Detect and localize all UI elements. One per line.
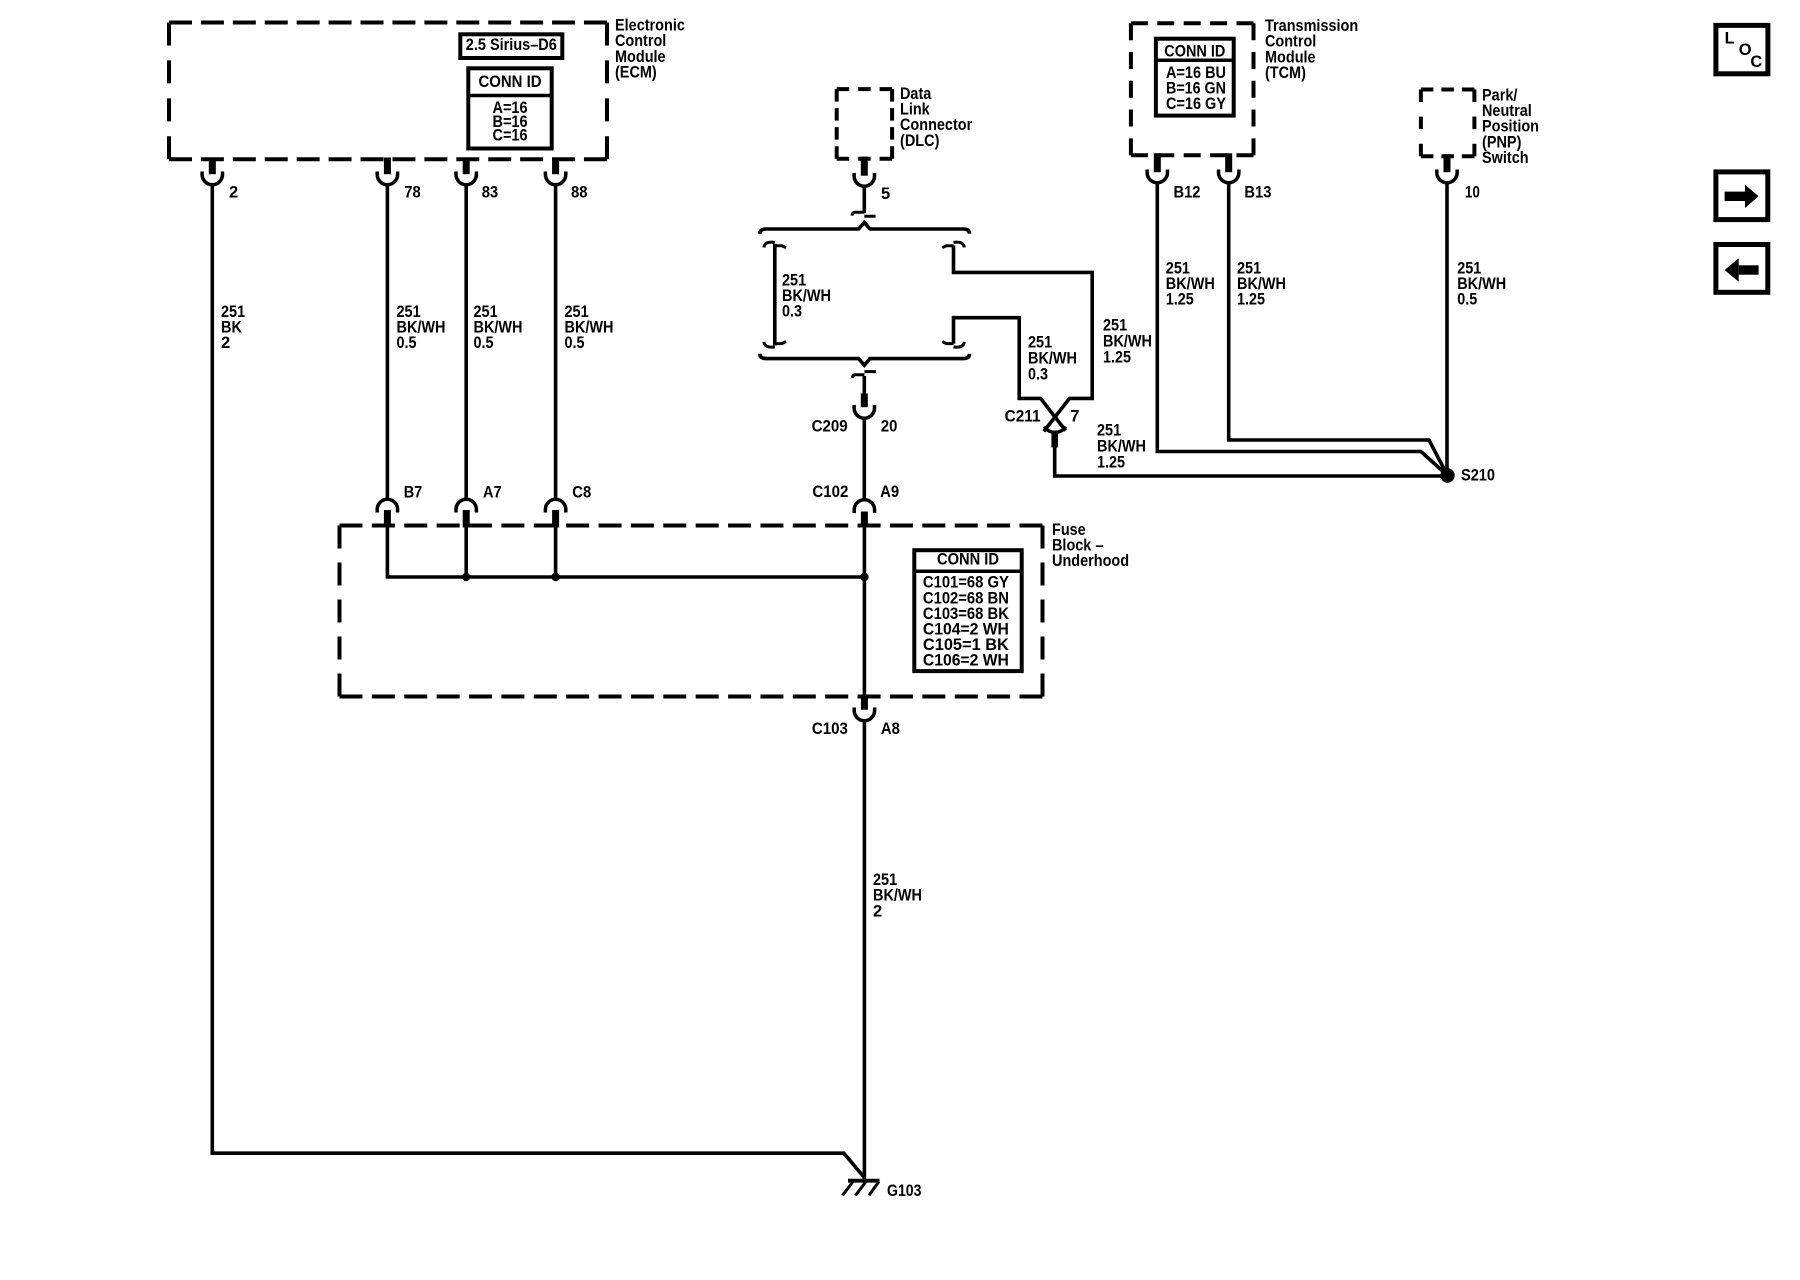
svg-text:0.5: 0.5: [565, 334, 585, 352]
LOC reference box: [1716, 25, 1768, 73]
TCM CONN ID table: [1156, 39, 1234, 116]
svg-text:88: 88: [571, 183, 588, 201]
svg-text:A9: A9: [880, 483, 899, 501]
svg-text:78: 78: [404, 183, 421, 201]
svg-text:1.25: 1.25: [1097, 453, 1125, 471]
svg-text:10: 10: [1465, 184, 1480, 202]
Fuse block CONN ID table: [914, 550, 1021, 671]
wire DLC pin 5 to twisted bundle: [862, 187, 866, 214]
ground G103: [843, 1181, 880, 1196]
svg-text:1.25: 1.25: [1237, 291, 1265, 309]
park/neutral position (PNP) switch box: [1421, 90, 1475, 157]
junction dot bus-A9: [860, 573, 868, 581]
left wire top hook: [764, 242, 786, 248]
wire TCM B13 to S210: [1229, 184, 1448, 476]
fuse block pin C8 connector: [545, 499, 565, 527]
label 251 BK/WH 1.25 (right drain to C211): [1103, 316, 1152, 366]
svg-text:83: 83: [482, 183, 499, 201]
Fuse Block - Underhood name text: [1052, 521, 1129, 570]
connector C211 pin 7 (X symbol): [1044, 427, 1066, 448]
svg-text:(DLC): (DLC): [900, 132, 939, 150]
bundle top brace: [760, 222, 970, 233]
junction dot C8-bus: [551, 573, 559, 581]
wire C209 to C102: [862, 420, 866, 500]
wire-end hook at pin5 entry: [852, 212, 876, 216]
wire TCM B12 to S210: [1157, 184, 1447, 476]
svg-text:2.5 Sirius–D6: 2.5 Sirius–D6: [466, 36, 557, 54]
svg-text:B13: B13: [1244, 184, 1271, 202]
svg-text:20: 20: [881, 417, 898, 435]
bundle bottom brace: [760, 354, 970, 365]
ECM pin 2 connector: [202, 158, 222, 185]
svg-text:C102: C102: [812, 483, 848, 501]
label 251 BK/WH 1.25 (B12 wire): [1166, 259, 1215, 308]
electronic control module (ECM) box: [169, 23, 607, 160]
svg-text:CONN ID: CONN ID: [479, 73, 542, 91]
svg-text:C: C: [1750, 53, 1762, 71]
svg-text:2: 2: [229, 183, 238, 201]
wire bundle to C209: [862, 376, 866, 394]
svg-text:C106=2 WH: C106=2 WH: [923, 652, 1009, 670]
svg-text:CONN ID: CONN ID: [937, 551, 999, 569]
svg-text:(ECM): (ECM): [615, 63, 657, 81]
label 251 BK/WH 1.25 (B13 wire): [1237, 259, 1286, 308]
svg-text:C211: C211: [1005, 407, 1041, 425]
ECM name text: [615, 17, 685, 82]
data link connector (DLC) box: [837, 89, 892, 159]
svg-text:A7: A7: [483, 483, 502, 501]
junction dot A7-bus: [462, 573, 470, 581]
left wire bottom hook: [764, 342, 786, 348]
svg-text:S210: S210: [1461, 466, 1495, 484]
label 251 BK/WH 0.5 (pin 78 wire): [397, 303, 446, 352]
wire ECM pin 88 to C8: [554, 186, 558, 500]
wire PNP pin 10 to S210: [1445, 184, 1449, 469]
fuse block pin A7 connector: [456, 499, 476, 527]
svg-text:C209: C209: [812, 417, 848, 435]
TCM pin B13 connector: [1219, 153, 1239, 182]
connector C209 pin 20: [854, 394, 874, 419]
label 251 BK/WH 0.5 (pin 88 wire): [565, 303, 614, 352]
DLC name text: [900, 85, 973, 150]
TCM name text: [1265, 17, 1358, 82]
wire fuse block internal bus B7/A7/C8 to A9: [387, 527, 864, 577]
drain wire lower exit to C211: [954, 318, 1066, 431]
svg-text:0.5: 0.5: [397, 334, 417, 352]
back arrow box: [1716, 245, 1768, 293]
svg-text:2: 2: [873, 902, 882, 920]
ECM pin 83 connector: [456, 158, 476, 185]
wire ECM pin 78 to B7: [386, 186, 390, 500]
svg-text:B7: B7: [404, 483, 423, 501]
label 251 BK/WH 0.5 (pin 83 wire): [474, 303, 523, 352]
ECM pin 88 connector: [545, 158, 565, 185]
svg-text:0.5: 0.5: [474, 334, 494, 352]
label 251 BK/WH 0.3 (bundle wire): [782, 271, 831, 320]
svg-text:A8: A8: [881, 720, 900, 738]
label 251 BK/WH 2 (A8 wire): [873, 871, 922, 920]
svg-text:1.25: 1.25: [1166, 291, 1194, 309]
twisted pair left wire 251 BK/WH 0.3: [773, 244, 777, 346]
drain wire upper exit to C211: [954, 246, 1093, 432]
wire ECM pin 2 to G103 (251 BK 2): [212, 186, 864, 1178]
svg-text:Underhood: Underhood: [1052, 552, 1129, 570]
svg-text:0.3: 0.3: [782, 303, 802, 321]
TCM pin B12 connector: [1147, 153, 1167, 182]
svg-text:Switch: Switch: [1482, 149, 1529, 167]
ECM pin 78 connector: [377, 158, 397, 185]
wire-end hook above C209: [852, 372, 876, 378]
transmission control module (TCM) box: [1131, 23, 1254, 155]
svg-text:7: 7: [1070, 407, 1079, 425]
fuse block pin B7 connector: [377, 499, 397, 527]
wire A9 vertical inside fuse block: [863, 527, 867, 695]
splice S210: [1440, 468, 1454, 482]
svg-text:G103: G103: [887, 1182, 922, 1200]
svg-text:1.25: 1.25: [1103, 348, 1131, 366]
right bottom hook: [942, 342, 964, 348]
svg-text:(TCM): (TCM): [1265, 64, 1306, 82]
connector C102 pin A9: [854, 500, 874, 528]
label 251 BK 2 (ECM pin 2 wire): [221, 303, 245, 352]
svg-text:5: 5: [881, 185, 890, 203]
PNP pin 10 connector: [1437, 154, 1457, 182]
svg-text:2: 2: [221, 334, 230, 352]
DLC pin 5 connector: [854, 157, 874, 187]
wire ECM pin 83 to A7: [464, 186, 468, 500]
forward arrow box: [1716, 172, 1768, 220]
svg-text:B12: B12: [1174, 184, 1201, 202]
svg-text:CONN ID: CONN ID: [1164, 43, 1225, 61]
connector C103 pin A8: [854, 695, 874, 721]
svg-text:C103: C103: [812, 720, 848, 738]
svg-text:0.3: 0.3: [1028, 365, 1048, 383]
wire C103 to G103 ground (251 BK/WH 2): [863, 723, 867, 1180]
fuse block underhood box: [340, 526, 1043, 697]
svg-text:C=16: C=16: [493, 127, 528, 145]
svg-text:C8: C8: [572, 483, 591, 501]
ECM CONN ID table: [468, 68, 551, 148]
label 251 BK/WH 0.3 (left drain to C211): [1028, 333, 1077, 383]
right top hook: [942, 242, 964, 248]
PNP switch name text: [1482, 86, 1539, 167]
label 251 BK/WH 0.5 (PNP wire): [1457, 259, 1506, 308]
svg-text:L: L: [1725, 29, 1735, 47]
ECM part label box 2.5 Sirius-D6: [460, 34, 562, 58]
label 251 BK/WH 1.25 (C211 to S210): [1097, 421, 1146, 471]
svg-text:0.5: 0.5: [1457, 291, 1477, 309]
svg-text:C=16 GY: C=16 GY: [1166, 95, 1226, 113]
wire C211 pin 7 to S210 (251 BK/WH 1.25): [1055, 447, 1441, 476]
